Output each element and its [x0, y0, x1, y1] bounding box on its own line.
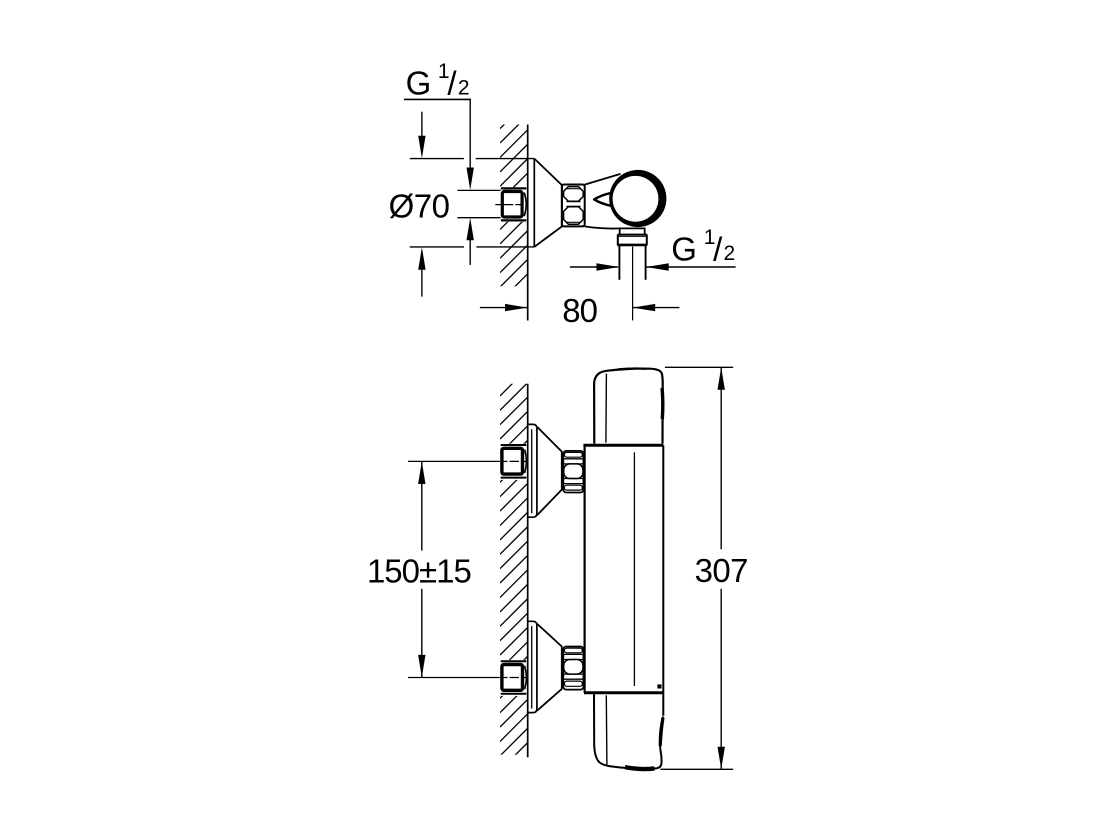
- tube end arc at wall: [524, 193, 526, 217]
- lower union square fitting: [502, 665, 523, 691]
- svg-text:80: 80: [562, 292, 597, 329]
- dimension 80 (wall to outlet center): [480, 307, 527, 309]
- escutcheon lip (top view): [533, 159, 535, 247]
- upper wall opening lines: [501, 444, 527, 446]
- body highlight line: [633, 452, 635, 686]
- upper hex nut: [563, 451, 583, 493]
- svg-text:Ø70: Ø70: [389, 188, 450, 225]
- upper escutcheon cone: [537, 427, 562, 516]
- temperature pointer on knob: [594, 193, 611, 206]
- top cap / handle: [594, 369, 663, 444]
- wall (top view, section line): [527, 125, 529, 321]
- svg-text:307: 307: [695, 552, 748, 589]
- union square fitting (top view): [502, 192, 522, 218]
- leader underline G1/2: [404, 98, 471, 100]
- lower hex nut: [563, 647, 583, 690]
- valve body outline (top view): [585, 174, 621, 185]
- leader line down to pipe: [469, 99, 471, 170]
- wall hatching (top view): [500, 87, 527, 330]
- svg-text:2: 2: [724, 242, 736, 265]
- upper escutcheon lip: [528, 424, 537, 517]
- hex union nut (top view): [562, 185, 585, 227]
- upper port centerline + extension (150 dim): [408, 460, 500, 462]
- lower escutcheon cone: [537, 624, 562, 711]
- bottom cap: [594, 694, 663, 769]
- upper union square fitting: [502, 448, 523, 474]
- thermostat body (bottom view): [583, 445, 585, 692]
- outlet centerline: [632, 247, 634, 321]
- wall hatching (bottom view): [500, 340, 527, 785]
- small button mark: [657, 684, 661, 688]
- wall (bottom view): [527, 384, 529, 757]
- lower port centerline + extension (150 dim): [408, 677, 500, 679]
- svg-text:/: /: [713, 231, 723, 268]
- extension line Ø70 top: [410, 158, 464, 160]
- dimension 150±15: [421, 462, 423, 551]
- svg-text:150±15: 150±15: [367, 552, 471, 589]
- lower escutcheon lip: [528, 621, 537, 712]
- wall opening lines: [501, 187, 527, 189]
- centerline of inlet (dash-dot): [495, 204, 522, 206]
- Ø70 arrows: [421, 112, 423, 137]
- G1/2 lower arrow (up at pipe bottom): [467, 218, 474, 241]
- svg-text:G: G: [406, 65, 432, 102]
- outlet union nut: [618, 233, 647, 235]
- thermostat knob ring (top view): [609, 170, 666, 227]
- lower tube end arc: [525, 666, 527, 690]
- escutcheon cone (top view): [534, 159, 562, 247]
- dimension G1/2 right (outlet thread): [570, 266, 618, 268]
- shower hose connection pipe (G1/2): [618, 246, 620, 280]
- outlet collar below knob: [620, 228, 645, 234]
- upper tube end arc: [525, 450, 527, 474]
- lower wall opening lines: [501, 660, 527, 662]
- svg-text:2: 2: [458, 76, 470, 99]
- supply pipe behind wall: [457, 189, 500, 191]
- svg-text:G: G: [671, 231, 697, 268]
- svg-text:/: /: [447, 65, 457, 102]
- extension line Ø70 bottom: [410, 246, 464, 248]
- dimension 307: [665, 366, 733, 368]
